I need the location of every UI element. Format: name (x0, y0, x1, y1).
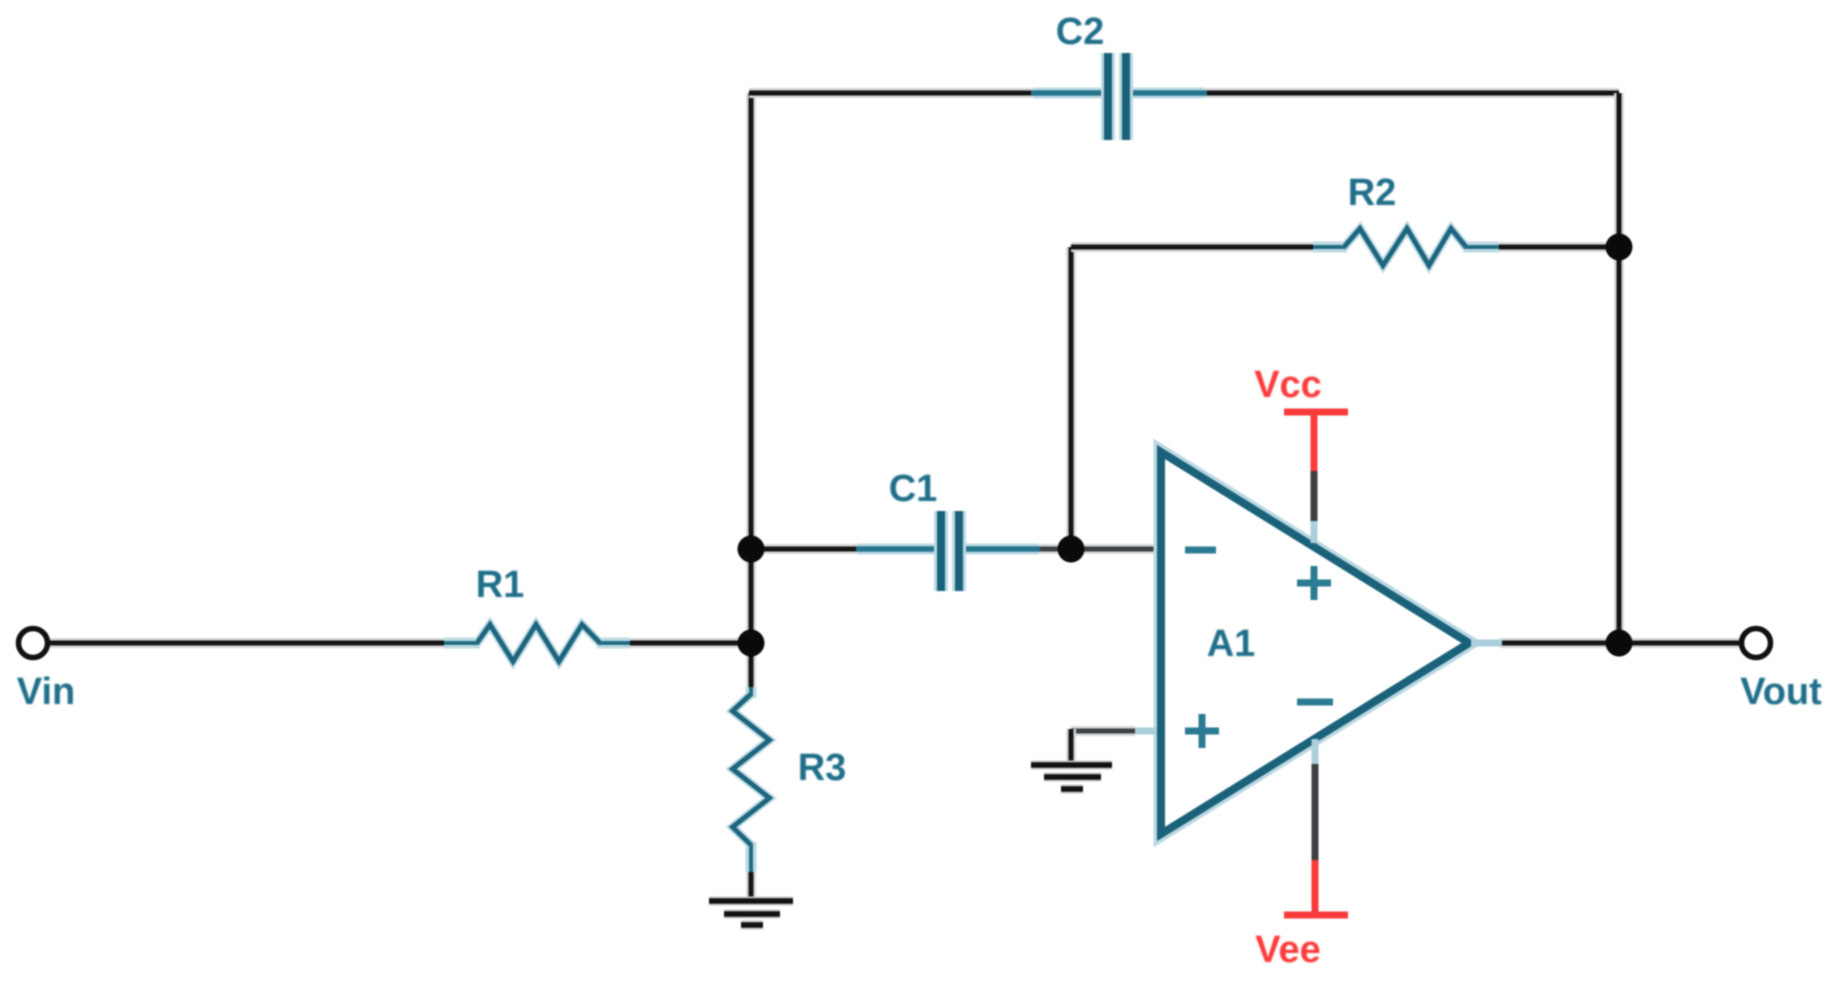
wire op-amp output to node E (1500, 638, 1619, 648)
wire top horizontal right segment (C2 to right corner) (1204, 88, 1619, 98)
svg-text:C2: C2 (1056, 11, 1105, 53)
op-amp inverting input minus sign (1185, 547, 1216, 554)
wire R2 left lead (1071, 242, 1316, 252)
ground (at non-inverting input) (1031, 765, 1112, 789)
svg-text:Vout: Vout (1740, 671, 1822, 713)
wire ground to op-amp non-inverting input (1071, 729, 1157, 765)
svg-text:Vin: Vin (17, 671, 75, 713)
wire R1 to node A (629, 638, 751, 648)
ground (below R3) (709, 901, 793, 925)
svg-text:Vcc: Vcc (1254, 364, 1322, 406)
wire node C to op-amp inverting input (1071, 544, 1157, 554)
wire Vin to R1 (47, 638, 447, 648)
wire R2 right lead to node D (1497, 242, 1619, 252)
wire R3 to ground (746, 871, 756, 899)
svg-text:R3: R3 (798, 747, 847, 789)
wire top horizontal left segment (to C2) (749, 88, 1034, 98)
wire right vertical (top corner through R2 node to output node) (1614, 93, 1624, 643)
node D junction dot (1606, 234, 1633, 261)
node C junction dot (1058, 536, 1085, 563)
Vcc supply pin (1284, 412, 1348, 543)
node B junction dot (738, 536, 765, 563)
svg-text:R1: R1 (476, 564, 525, 606)
node A junction dot (738, 630, 765, 657)
wire node A down to R3 (746, 643, 756, 690)
op-amp output lead (1471, 640, 1502, 647)
Vee supply pin (1284, 739, 1348, 915)
resistor R2 (1313, 229, 1499, 266)
Vout terminal (1742, 629, 1771, 658)
op-amp negative supply minus sign (1297, 699, 1333, 706)
svg-text:R2: R2 (1348, 172, 1397, 214)
op-amp positive supply plus sign (1297, 566, 1331, 600)
wire node E to Vout terminal (1619, 638, 1742, 648)
op-amp A1 (1161, 452, 1469, 834)
svg-text:Vee: Vee (1255, 929, 1321, 971)
capacitor C1 (856, 511, 1040, 591)
op-amp non-inverting input plus sign (1185, 714, 1219, 748)
wire node C up to R2 left corner (1066, 247, 1076, 549)
resistor R1 (444, 625, 630, 662)
wire node A up through node B to top-left corner (746, 93, 756, 643)
Vin terminal (19, 629, 48, 658)
svg-text:C1: C1 (889, 468, 938, 510)
wire node B to C1 (751, 544, 858, 554)
wire C1 to node C (1037, 544, 1071, 554)
capacitor C2 (1031, 53, 1207, 140)
resistor R3 (733, 687, 770, 872)
node E junction dot (1606, 630, 1633, 657)
svg-text:A1: A1 (1207, 623, 1256, 665)
